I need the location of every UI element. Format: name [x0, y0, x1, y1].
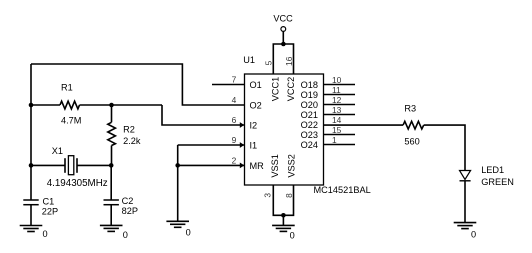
svg-text:MR: MR — [250, 161, 265, 171]
svg-text:R1: R1 — [61, 83, 73, 93]
svg-text:I1: I1 — [250, 140, 258, 150]
svg-text:O1: O1 — [250, 80, 262, 90]
svg-text:14: 14 — [332, 115, 342, 125]
svg-text:VSS2: VSS2 — [286, 154, 296, 178]
svg-text:X1: X1 — [52, 146, 63, 156]
svg-text:R3: R3 — [404, 103, 416, 113]
svg-text:O21: O21 — [301, 110, 318, 120]
svg-text:U1: U1 — [243, 55, 255, 65]
svg-text:O22: O22 — [301, 120, 318, 130]
svg-text:22P: 22P — [42, 207, 58, 217]
svg-text:O23: O23 — [301, 130, 318, 140]
svg-text:0: 0 — [123, 230, 128, 240]
svg-text:MC14521BAL: MC14521BAL — [314, 185, 371, 195]
svg-text:O24: O24 — [301, 140, 318, 150]
svg-text:11: 11 — [332, 85, 341, 95]
svg-text:LED1: LED1 — [481, 165, 504, 175]
svg-text:0: 0 — [290, 231, 295, 241]
svg-text:O18: O18 — [301, 80, 318, 90]
svg-text:O19: O19 — [301, 90, 318, 100]
svg-text:4.194305MHz: 4.194305MHz — [47, 178, 108, 189]
svg-text:VCC2: VCC2 — [286, 77, 296, 102]
svg-text:10: 10 — [332, 75, 342, 85]
svg-text:1: 1 — [332, 135, 337, 145]
svg-text:R2: R2 — [123, 125, 135, 135]
svg-text:VSS1: VSS1 — [270, 154, 280, 178]
svg-text:O20: O20 — [301, 100, 318, 110]
svg-text:0: 0 — [471, 229, 476, 239]
svg-text:VCC: VCC — [273, 13, 293, 23]
svg-text:7: 7 — [232, 75, 237, 85]
svg-text:0: 0 — [43, 229, 48, 239]
svg-text:3: 3 — [262, 193, 272, 198]
svg-text:0: 0 — [186, 227, 191, 237]
svg-text:VCC1: VCC1 — [270, 77, 280, 102]
svg-text:O2: O2 — [250, 100, 262, 110]
svg-text:2: 2 — [232, 155, 237, 165]
svg-text:C1: C1 — [43, 197, 55, 207]
svg-text:8: 8 — [284, 193, 294, 198]
svg-text:4.7M: 4.7M — [61, 116, 81, 126]
svg-text:560: 560 — [404, 136, 419, 146]
svg-text:C2: C2 — [122, 196, 134, 206]
svg-text:6: 6 — [232, 115, 237, 125]
svg-text:GREEN: GREEN — [481, 177, 514, 187]
svg-text:5: 5 — [263, 60, 273, 65]
svg-text:4: 4 — [232, 95, 237, 105]
svg-text:2.2k: 2.2k — [123, 136, 141, 146]
svg-text:16: 16 — [284, 56, 294, 66]
svg-text:12: 12 — [332, 95, 342, 105]
svg-text:13: 13 — [332, 105, 342, 115]
svg-text:82P: 82P — [122, 206, 138, 216]
svg-text:9: 9 — [232, 135, 237, 145]
svg-text:I2: I2 — [250, 120, 258, 130]
svg-text:15: 15 — [332, 125, 342, 135]
